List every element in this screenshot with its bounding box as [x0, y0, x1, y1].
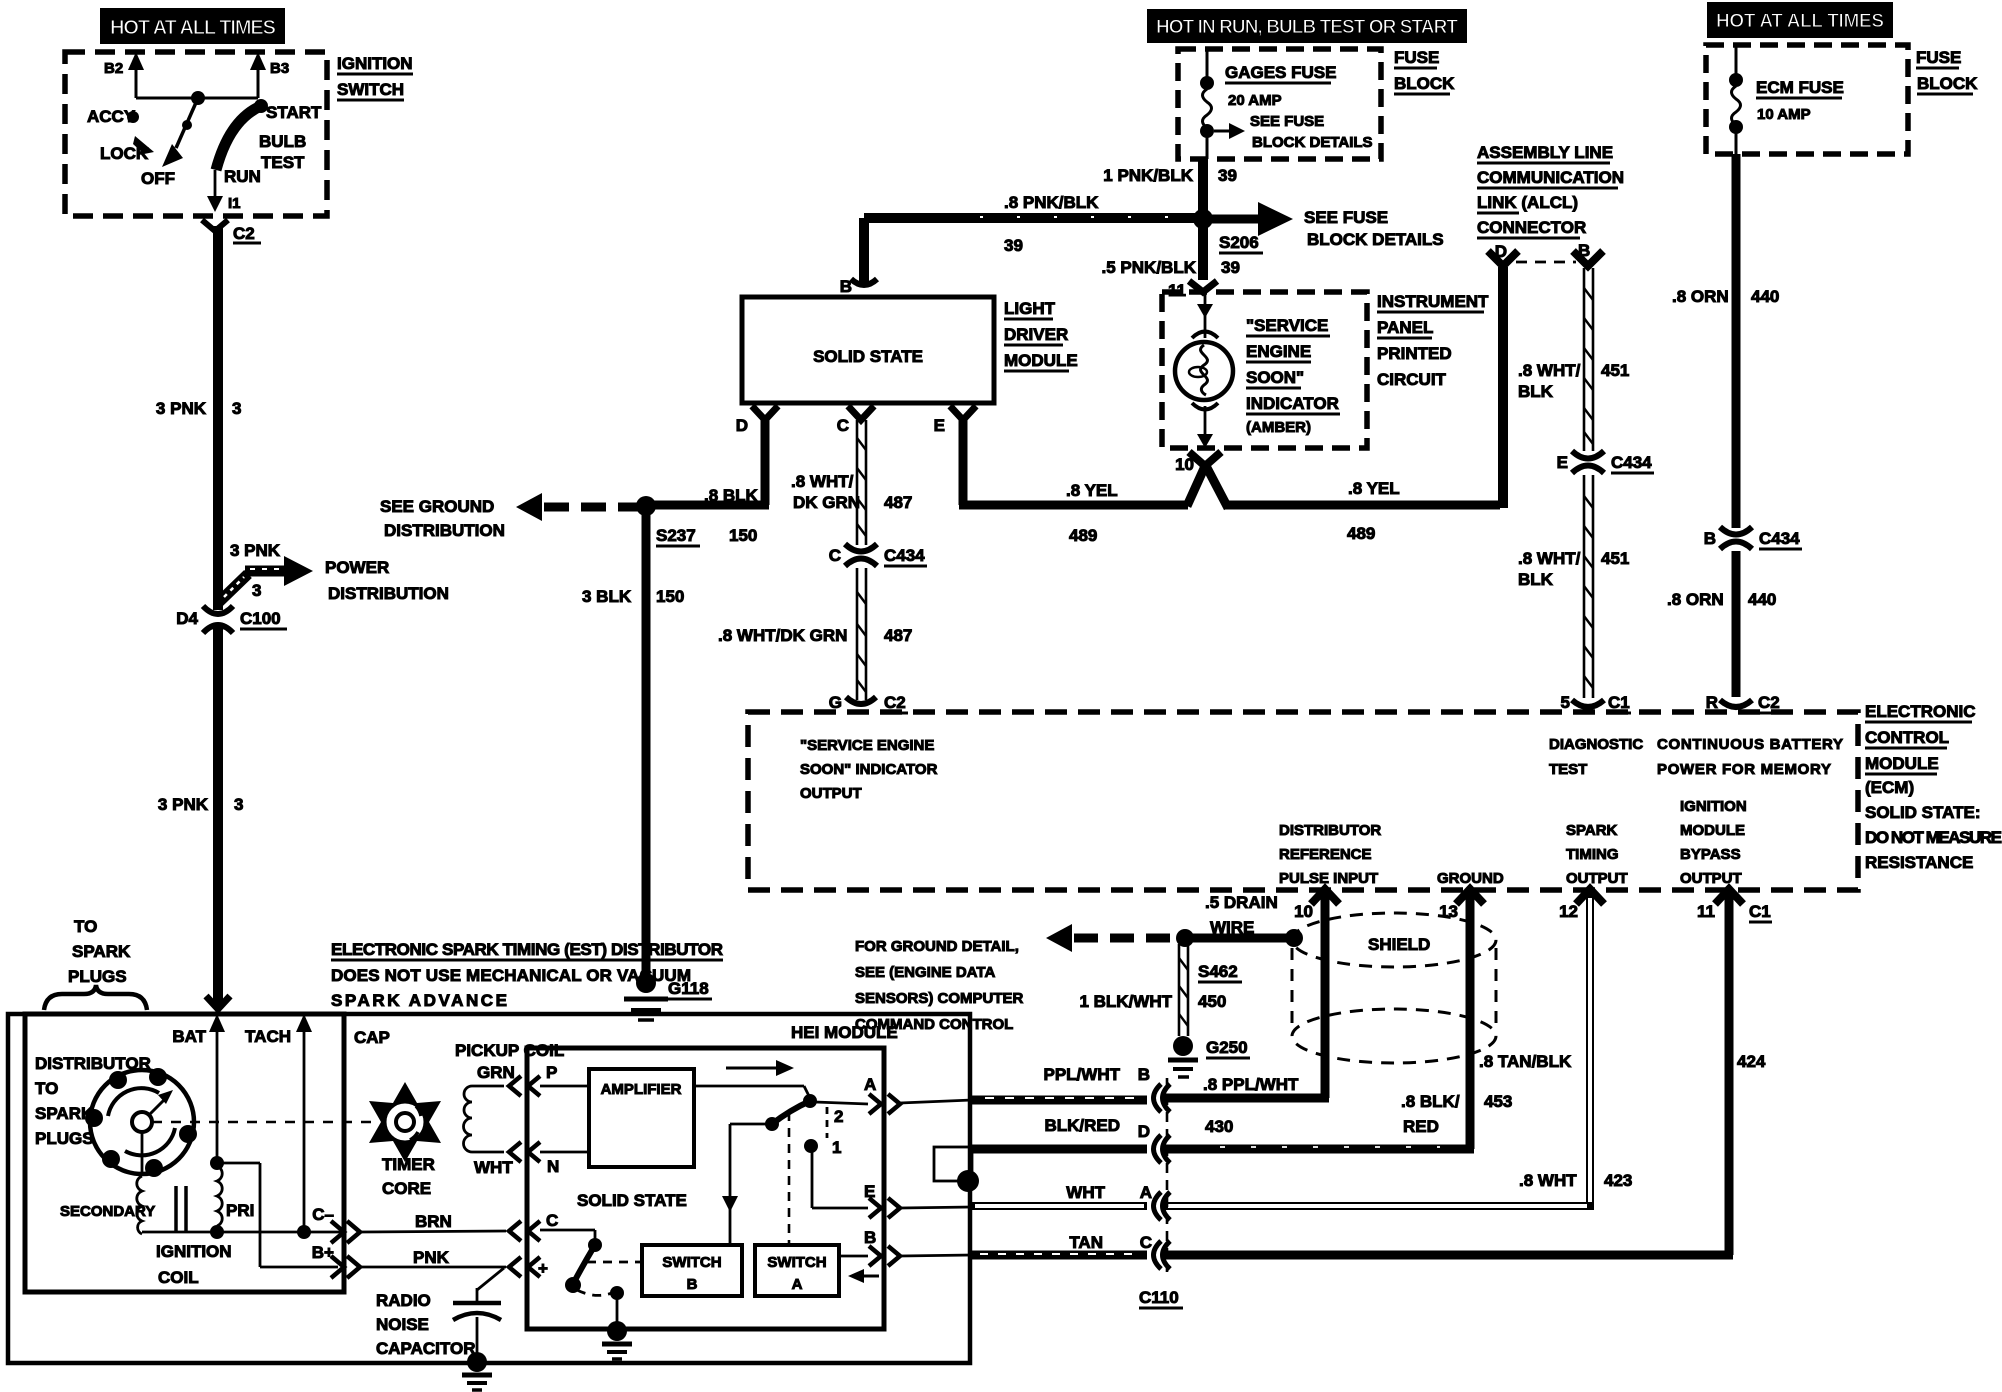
svg-text:C: C — [837, 416, 849, 435]
HEI pin A — [864, 1075, 972, 1114]
svg-text:IGNITION: IGNITION — [1680, 798, 1747, 815]
amplifier U2 — [589, 1069, 694, 1167]
svg-text:12: 12 — [1559, 902, 1578, 921]
svg-text:.8 ORN: .8 ORN — [1667, 590, 1724, 609]
note ELECTRONIC SPARK TIMING (EST) DISTRIBUTOR — [331, 940, 723, 1010]
svg-text:SOLID STATE:: SOLID STATE: — [1865, 803, 1981, 822]
svg-text:(ECM): (ECM) — [1865, 778, 1914, 797]
node switch common — [191, 91, 205, 105]
svg-text:CIRCUIT: CIRCUIT — [1377, 370, 1447, 389]
svg-text:C1: C1 — [1608, 693, 1630, 712]
note FOR GROUND DETAIL — [855, 938, 1024, 1033]
service engine soon indicator bulb (amber) — [1175, 294, 1340, 448]
svg-text:B: B — [840, 277, 852, 296]
svg-text:DIAGNOSTIC: DIAGNOSTIC — [1549, 736, 1643, 753]
pickup coil — [455, 1041, 564, 1177]
terminal B+ — [312, 1243, 360, 1278]
svg-text:ENGINE: ENGINE — [1246, 342, 1311, 361]
connector C100 terminal D4 — [176, 606, 287, 633]
svg-text:C434: C434 — [1611, 453, 1652, 472]
electronic control module (ECM) box — [748, 702, 2002, 890]
svg-text:DK GRN: DK GRN — [793, 493, 860, 512]
svg-text:B: B — [687, 1276, 698, 1293]
svg-text:ELECTRONIC: ELECTRONIC — [1865, 702, 1976, 721]
svg-text:453: 453 — [1484, 1092, 1512, 1111]
ground (HEI module) — [602, 1321, 632, 1359]
svg-text:+: + — [538, 1259, 548, 1278]
svg-text:GAGES FUSE: GAGES FUSE — [1225, 63, 1336, 82]
svg-text:ECM FUSE: ECM FUSE — [1756, 78, 1844, 97]
svg-text:C434: C434 — [1759, 529, 1800, 548]
ignition switch terminal B3 — [250, 52, 289, 98]
svg-text:AMPLIFIER: AMPLIFIER — [601, 1081, 682, 1098]
svg-text:ELECTRONIC SPARK TIMING (EST): ELECTRONIC SPARK TIMING (EST) DISTRIBUTO… — [331, 940, 723, 959]
svg-text:BLK/RED: BLK/RED — [1044, 1116, 1120, 1135]
svg-text:3: 3 — [232, 399, 241, 418]
svg-text:2: 2 — [834, 1107, 843, 1126]
svg-text:489: 489 — [1347, 524, 1375, 543]
svg-text:B+: B+ — [312, 1243, 334, 1262]
svg-text:B3: B3 — [270, 60, 289, 77]
svg-text:C434: C434 — [884, 546, 925, 565]
svg-text:B: B — [1704, 529, 1716, 548]
svg-text:39: 39 — [1218, 166, 1237, 185]
svg-text:450: 450 — [1198, 992, 1226, 1011]
pin B of light driver module — [840, 218, 877, 296]
distributor outer case box — [8, 1014, 970, 1363]
svg-text:IGNITION: IGNITION — [337, 54, 413, 73]
svg-text:1 PNK/BLK: 1 PNK/BLK — [1103, 166, 1193, 185]
svg-text:B2: B2 — [104, 60, 123, 77]
svg-text:SWITCH: SWITCH — [337, 80, 404, 99]
svg-text:WHT: WHT — [474, 1158, 513, 1177]
connector C2 (ignition switch) — [202, 220, 261, 243]
HEI pin + — [509, 1257, 548, 1278]
svg-text:.8 YEL: .8 YEL — [1066, 481, 1118, 500]
svg-text:BLOCK DETAILS: BLOCK DETAILS — [1307, 230, 1444, 249]
terminal TACH — [245, 1014, 312, 1232]
svg-text:A: A — [792, 1276, 803, 1293]
svg-text:ASSEMBLY LINE: ASSEMBLY LINE — [1477, 143, 1613, 162]
svg-text:S206: S206 — [1219, 233, 1259, 252]
svg-text:E: E — [1557, 453, 1568, 472]
timer core — [369, 1082, 441, 1198]
switch B — [642, 1245, 742, 1296]
arrow current direction (top) — [726, 1060, 794, 1076]
connector C434 terminal C — [829, 544, 927, 566]
svg-text:PULSE INPUT: PULSE INPUT — [1279, 870, 1378, 887]
terminal I1 — [228, 195, 241, 212]
ignition switch position OFF — [141, 169, 175, 188]
svg-text:SEE GROUND: SEE GROUND — [380, 497, 494, 516]
svg-text:D: D — [1138, 1122, 1150, 1141]
svg-text:CONTINUOUS BATTERY: CONTINUOUS BATTERY — [1657, 736, 1843, 753]
svg-text:RADIO: RADIO — [376, 1291, 431, 1310]
svg-text:3: 3 — [234, 795, 243, 814]
ECM pin 13 (ground) — [1439, 889, 1484, 921]
arrow SEE GROUND DISTRIBUTION — [380, 493, 642, 540]
svg-text:DOES NOT USE MECHANICAL OR VAC: DOES NOT USE MECHANICAL OR VACUUM — [331, 966, 691, 985]
pin E of light driver module — [934, 406, 976, 435]
svg-text:SWITCH: SWITCH — [662, 1254, 721, 1271]
svg-text:OFF: OFF — [141, 169, 175, 188]
wire .8 WHT circuit 423 (ECM 12 to C110 A) — [1164, 895, 1632, 1206]
switch arm node 2 — [694, 1086, 868, 1126]
svg-text:3 PNK: 3 PNK — [230, 541, 281, 560]
svg-text:OUTPUT: OUTPUT — [1680, 870, 1742, 887]
ECM pin C2-G (service engine soon indicator output) — [800, 693, 938, 802]
fuse ECM FUSE 10 AMP — [1729, 45, 1844, 154]
wire 3 PNK circuit 3 (ignition feed) — [156, 226, 244, 1004]
svg-text:GRN: GRN — [477, 1063, 515, 1082]
svg-text:I1: I1 — [228, 195, 241, 212]
svg-text:N: N — [547, 1157, 559, 1176]
svg-text:INDICATOR: INDICATOR — [1246, 394, 1339, 413]
svg-text:WHT: WHT — [1066, 1183, 1105, 1202]
svg-text:BLOCK: BLOCK — [1394, 74, 1455, 93]
ignition switch terminal B2 — [104, 52, 144, 98]
connector C110 — [1139, 1078, 1183, 1308]
ignition coil primary winding PRI — [210, 1156, 254, 1239]
svg-text:NOISE: NOISE — [376, 1315, 429, 1334]
splice S237 — [636, 496, 700, 546]
svg-text:BLOCK: BLOCK — [1917, 74, 1978, 93]
svg-text:CAP: CAP — [354, 1028, 390, 1047]
dashed link to switch A — [788, 1112, 791, 1243]
svg-text:S462: S462 — [1198, 962, 1238, 981]
svg-text:PICKUP COIL: PICKUP COIL — [455, 1041, 564, 1060]
ECM pin C1-5 (diagnostic test) — [1549, 693, 1643, 778]
svg-text:39: 39 — [1004, 236, 1023, 255]
wire .8 ORN circuit 440 (lower, to ECM C2-R) — [1667, 551, 1776, 697]
svg-text:D4: D4 — [176, 609, 198, 628]
wire .8 WHT/BLK circuit 451 (lower, to ECM C1-5) — [1518, 475, 1629, 698]
wire PNK (B+ to HEI +) — [360, 1248, 506, 1267]
svg-text:BLOCK DETAILS: BLOCK DETAILS — [1252, 134, 1373, 151]
ECM function labels bottom row — [1279, 798, 1747, 887]
svg-text:HEI MODULE: HEI MODULE — [791, 1023, 898, 1042]
svg-text:TAN: TAN — [1069, 1233, 1103, 1252]
svg-text:1: 1 — [832, 1138, 841, 1157]
terminal 11 connector — [1189, 281, 1217, 292]
svg-text:C2: C2 — [233, 224, 255, 243]
wire branch to power distribution — [219, 541, 449, 603]
svg-text:150: 150 — [656, 587, 684, 606]
svg-text:C: C — [546, 1211, 558, 1230]
svg-text:START: START — [266, 103, 322, 122]
svg-text:COIL: COIL — [158, 1268, 199, 1287]
ignition coil secondary winding — [60, 1132, 155, 1234]
wire .8 WHT/BLK circuit 451 (upper, ALCL B to C434 E) — [1518, 268, 1629, 451]
svg-text:3: 3 — [252, 581, 261, 600]
svg-text:SPARK: SPARK — [35, 1104, 94, 1123]
power label HOT AT ALL TIMES (left) — [100, 8, 285, 44]
svg-text:451: 451 — [1601, 361, 1629, 380]
svg-text:C: C — [829, 546, 841, 565]
svg-text:TEST: TEST — [261, 153, 305, 172]
terminal BAT — [172, 996, 230, 1160]
distributor cap section box — [25, 1014, 344, 1292]
switch arm (thick) — [722, 1101, 810, 1243]
svg-text:3 PNK: 3 PNK — [158, 795, 209, 814]
wire .8 BLK/RED circuit 453 (ECM 13 to C110 D) — [1164, 895, 1512, 1149]
svg-text:TACH: TACH — [245, 1027, 291, 1046]
pin C of light driver module — [837, 406, 874, 435]
svg-text:DISTRIBUTOR: DISTRIBUTOR — [1279, 822, 1381, 839]
svg-text:C1: C1 — [1749, 902, 1771, 921]
svg-text:B: B — [864, 1228, 876, 1247]
svg-text:.8 PPL/WHT: .8 PPL/WHT — [1203, 1075, 1299, 1094]
ignition switch position START — [216, 99, 322, 170]
svg-text:.8 PNK/BLK: .8 PNK/BLK — [1004, 193, 1099, 212]
svg-text:DO NOT MEASURE: DO NOT MEASURE — [1865, 828, 2002, 847]
svg-text:A: A — [864, 1075, 876, 1094]
svg-text:S237: S237 — [656, 526, 696, 545]
svg-text:R: R — [1706, 693, 1718, 712]
svg-text:3 BLK: 3 BLK — [582, 587, 632, 606]
fuse GAGES FUSE 20 AMP — [1200, 49, 1373, 159]
switch A — [755, 1245, 879, 1296]
svg-text:C100: C100 — [240, 609, 281, 628]
svg-text:RESISTANCE: RESISTANCE — [1865, 853, 1973, 872]
HEI module box — [527, 1023, 898, 1329]
C110 terminal B / wire PPL/WHT — [972, 1065, 1170, 1112]
distributor rotor assembly — [85, 1068, 197, 1177]
power label HOT AT ALL TIMES (right) — [1707, 2, 1893, 38]
svg-text:451: 451 — [1601, 549, 1629, 568]
svg-text:TEST: TEST — [1549, 761, 1587, 778]
svg-text:IGNITION: IGNITION — [156, 1242, 232, 1261]
HEI pin P — [509, 1063, 589, 1096]
svg-text:5: 5 — [1561, 693, 1570, 712]
svg-text:INSTRUMENT: INSTRUMENT — [1377, 292, 1489, 311]
switch contact 1 — [804, 1107, 868, 1208]
svg-text:DISTRIBUTION: DISTRIBUTION — [328, 584, 449, 603]
svg-text:440: 440 — [1751, 287, 1779, 306]
wire .8 PNK/BLK circuit 39 (horizontal) — [864, 193, 1197, 255]
wire B+ feed — [221, 1163, 338, 1267]
wire .8 BLK circuit 150 (module D to splice) — [646, 418, 769, 545]
svg-text:39: 39 — [1221, 258, 1240, 277]
wire 1 PNK/BLK circuit 39 — [1103, 159, 1237, 214]
assembly line communication link (ALCL) connector — [1477, 143, 1624, 266]
svg-text:.8 ORN: .8 ORN — [1672, 287, 1729, 306]
svg-text:(AMBER): (AMBER) — [1246, 419, 1311, 436]
svg-text:SOLID STATE: SOLID STATE — [577, 1191, 687, 1210]
svg-text:DRIVER: DRIVER — [1004, 325, 1068, 344]
svg-text:BULB: BULB — [259, 132, 306, 151]
svg-text:430: 430 — [1205, 1117, 1233, 1136]
svg-text:SOON" INDICATOR: SOON" INDICATOR — [800, 761, 938, 778]
svg-text:TO: TO — [74, 917, 97, 936]
svg-text:SEE FUSE: SEE FUSE — [1304, 208, 1388, 227]
wire BRN (coil negative to HEI C) — [360, 1212, 506, 1232]
C110 terminal C / wire TAN — [972, 1233, 1170, 1269]
ground G250 — [1168, 1036, 1250, 1077]
svg-text:.5 PNK/BLK: .5 PNK/BLK — [1102, 258, 1197, 277]
fuse block (gages) — [1178, 48, 1455, 159]
C110 terminal D / wire BLK/RED — [972, 1116, 1170, 1163]
wire .8 WHT/DK GRN circuit 487 (lower) — [718, 568, 912, 700]
svg-text:150: 150 — [729, 526, 757, 545]
ground G118 — [624, 973, 712, 1020]
svg-text:B: B — [1138, 1065, 1150, 1084]
svg-text:BRN: BRN — [415, 1212, 452, 1231]
svg-text:P: P — [546, 1063, 557, 1082]
label CAP — [354, 1028, 390, 1047]
ignition switch position LOCK — [100, 136, 154, 163]
wire .5 drain wire (dashed to ground detail) — [1046, 893, 1303, 952]
svg-text:440: 440 — [1748, 590, 1776, 609]
svg-text:C110: C110 — [1139, 1288, 1179, 1307]
wire 3 BLK circuit 150 (to ground) — [582, 506, 684, 978]
svg-text:TIMER: TIMER — [382, 1155, 435, 1174]
svg-text:C: C — [1140, 1233, 1152, 1252]
C110 terminal A / wire WHT — [972, 1183, 1170, 1220]
svg-text:SPARK: SPARK — [72, 942, 131, 961]
svg-text:SOLID STATE: SOLID STATE — [813, 347, 923, 366]
light driver module U1 — [742, 297, 1078, 403]
svg-text:TO: TO — [35, 1079, 58, 1098]
ECM pin C2-R (continuous battery power) — [1657, 693, 1843, 778]
svg-text:RUN: RUN — [224, 167, 261, 186]
svg-text:OUTPUT: OUTPUT — [800, 785, 862, 802]
svg-text:FUSE: FUSE — [1916, 48, 1961, 67]
HEI pin C — [509, 1211, 558, 1241]
svg-text:10: 10 — [1294, 902, 1313, 921]
svg-text:CONNECTOR: CONNECTOR — [1477, 218, 1586, 237]
wire .8 YEL circuit 489 (right to ALCL D) — [1187, 267, 1503, 543]
svg-text:HOT IN RUN, BULB TEST OR START: HOT IN RUN, BULB TEST OR START — [1156, 17, 1458, 38]
svg-text:.8 WHT/: .8 WHT/ — [1518, 549, 1581, 568]
svg-text:LIGHT: LIGHT — [1004, 299, 1056, 318]
dashed rotor shaft line to timer core — [152, 1121, 380, 1124]
svg-text:.8 WHT/: .8 WHT/ — [1518, 361, 1581, 380]
svg-text:"SERVICE ENGINE: "SERVICE ENGINE — [800, 737, 934, 754]
pin D of light driver module — [736, 406, 778, 435]
svg-text:SEE (ENGINE DATA: SEE (ENGINE DATA — [855, 964, 995, 981]
svg-text:SEE FUSE: SEE FUSE — [1250, 113, 1324, 130]
ignition switch position RUN — [207, 167, 261, 212]
svg-text:SPARK ADVANCE: SPARK ADVANCE — [331, 991, 507, 1010]
svg-text:PRINTED: PRINTED — [1377, 344, 1452, 363]
svg-text:PLUGS: PLUGS — [68, 967, 127, 986]
svg-text:PPL/WHT: PPL/WHT — [1044, 1065, 1121, 1084]
svg-text:PLUGS: PLUGS — [35, 1129, 94, 1148]
svg-text:CORE: CORE — [382, 1179, 431, 1198]
ignition coil core — [156, 1186, 232, 1287]
svg-text:FUSE: FUSE — [1394, 48, 1439, 67]
wire .5 PNK/BLK circuit 39 — [1102, 224, 1203, 300]
note TO SPARK PLUGS with brace — [44, 917, 147, 1010]
wire .8 WHT/DK GRN circuit 487 (upper, shielded) — [791, 420, 912, 545]
svg-text:487: 487 — [884, 626, 912, 645]
svg-text:OUTPUT: OUTPUT — [1566, 870, 1628, 887]
instrument panel printed circuit box — [1162, 292, 1489, 448]
svg-text:.8 WHT/: .8 WHT/ — [791, 472, 854, 491]
svg-text:SPARK: SPARK — [1566, 822, 1618, 839]
svg-text:PNK: PNK — [413, 1248, 450, 1267]
wire coil bottom bus — [142, 1225, 344, 1239]
ECM pin 11 (ignition module bypass output) connector C1 — [1697, 889, 1772, 922]
svg-text:TIMING: TIMING — [1566, 846, 1619, 863]
ignition switch position ACCY — [87, 107, 139, 126]
svg-text:G: G — [829, 693, 842, 712]
svg-text:REFERENCE: REFERENCE — [1279, 846, 1372, 863]
svg-text:.8 YEL: .8 YEL — [1348, 479, 1400, 498]
svg-text:HOT AT ALL TIMES: HOT AT ALL TIMES — [110, 17, 276, 39]
svg-text:C–: C– — [312, 1205, 334, 1224]
svg-text:.8 BLK: .8 BLK — [704, 486, 759, 505]
svg-text:MODULE: MODULE — [1680, 822, 1745, 839]
svg-text:MODULE: MODULE — [1865, 754, 1939, 773]
radio noise capacitor C1 — [376, 1268, 504, 1358]
wire .8 TAN/BLK circuit 424 (ECM 11 to C110 C) — [1164, 895, 1766, 1255]
splice S206 — [1193, 209, 1263, 277]
svg-text:WIRE: WIRE — [1210, 918, 1254, 937]
svg-text:SOON": SOON" — [1246, 368, 1304, 387]
svg-text:DISTRIBUTION: DISTRIBUTION — [384, 521, 505, 540]
ground (radio noise capacitor) — [462, 1352, 492, 1390]
svg-text:3 PNK: 3 PNK — [156, 399, 207, 418]
svg-text:BLK: BLK — [1518, 570, 1554, 589]
power label HOT IN RUN BULB TEST OR START — [1147, 9, 1467, 43]
ignition switch position BULB TEST — [259, 132, 306, 172]
svg-text:SWITCH: SWITCH — [767, 1254, 826, 1271]
svg-text:.8 BLK/: .8 BLK/ — [1401, 1092, 1460, 1111]
svg-text:489: 489 — [1069, 526, 1097, 545]
wire B2-B3 bus — [136, 97, 258, 100]
svg-text:G250: G250 — [1206, 1038, 1248, 1057]
svg-text:HOT AT ALL TIMES: HOT AT ALL TIMES — [1716, 11, 1884, 32]
ignition switch box — [65, 52, 413, 216]
svg-text:BYPASS: BYPASS — [1680, 846, 1741, 863]
svg-text:MODULE: MODULE — [1004, 351, 1078, 370]
wire .8 ORN circuit 440 (upper) — [1672, 154, 1779, 528]
svg-text:423: 423 — [1604, 1171, 1632, 1190]
svg-text:POWER FOR MEMORY: POWER FOR MEMORY — [1657, 761, 1831, 778]
svg-text:RED: RED — [1403, 1117, 1439, 1136]
svg-text:COMMUNICATION: COMMUNICATION — [1477, 168, 1624, 187]
svg-text:.8 TAN/BLK: .8 TAN/BLK — [1479, 1052, 1572, 1071]
stub connector at distributor case — [934, 1147, 979, 1192]
fuse block (ECM) — [1706, 45, 1978, 154]
ECM pin 12 (spark timing output) — [1559, 889, 1604, 921]
svg-text:11: 11 — [1697, 902, 1715, 921]
svg-text:C2: C2 — [1758, 693, 1780, 712]
shield (dashed cylinder) — [1292, 913, 1496, 1063]
svg-text:1 BLK/WHT: 1 BLK/WHT — [1079, 992, 1172, 1011]
svg-text:20 AMP: 20 AMP — [1228, 92, 1282, 109]
svg-text:CONTROL: CONTROL — [1865, 728, 1949, 747]
svg-text:SENSORS) COMPUTER: SENSORS) COMPUTER — [855, 990, 1024, 1007]
svg-text:.8 WHT/DK GRN: .8 WHT/DK GRN — [718, 626, 847, 645]
svg-text:SHIELD: SHIELD — [1368, 935, 1430, 954]
svg-text:PANEL: PANEL — [1377, 318, 1433, 337]
svg-text:487: 487 — [884, 493, 912, 512]
HEI pin B — [864, 1228, 972, 1266]
svg-text:CAPACITOR: CAPACITOR — [376, 1339, 476, 1358]
splice S462 / wire 1 BLK/WHT circuit 450 — [1079, 944, 1242, 1036]
svg-text:424: 424 — [1737, 1052, 1766, 1071]
svg-text:FOR GROUND DETAIL,: FOR GROUND DETAIL, — [855, 938, 1019, 955]
connector C434 terminal E — [1557, 451, 1654, 473]
svg-text:C2: C2 — [884, 693, 906, 712]
svg-text:POWER: POWER — [325, 558, 389, 577]
terminal 10 connector — [1175, 452, 1221, 474]
svg-text:PRI: PRI — [226, 1201, 254, 1220]
ECM pin 10 (distributor reference pulse input) — [1294, 889, 1339, 921]
